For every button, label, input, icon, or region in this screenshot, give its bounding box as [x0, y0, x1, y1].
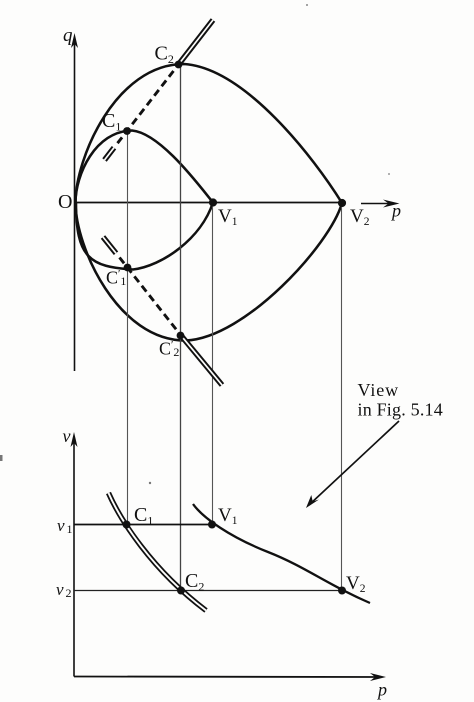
svg-text:p: p [390, 201, 401, 221]
svg-text:p: p [376, 680, 387, 700]
svg-text:v: v [57, 516, 65, 535]
svg-text:v: v [56, 580, 64, 599]
svg-text:in Fig. 5.14: in Fig. 5.14 [358, 400, 443, 420]
svg-text:O: O [58, 191, 72, 213]
svg-text:q: q [63, 25, 73, 46]
svg-text:2: 2 [66, 586, 72, 600]
svg-text:View: View [358, 380, 400, 400]
svg-text:1: 1 [67, 522, 73, 536]
svg-text:v: v [63, 426, 71, 446]
